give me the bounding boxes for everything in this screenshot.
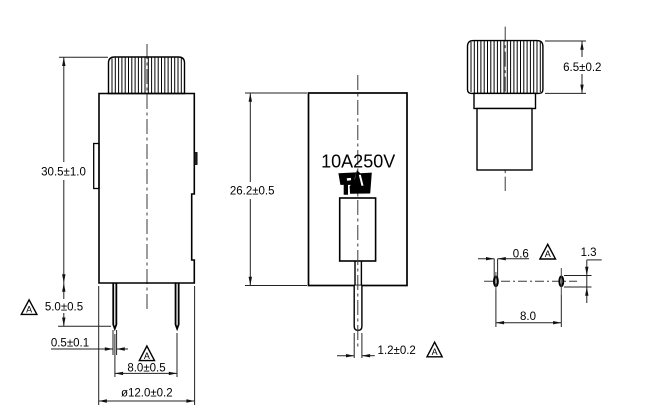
knurled cap top right view	[468, 41, 543, 94]
svg-text:ø12.0±0.2: ø12.0±0.2	[121, 388, 173, 400]
left pin	[113, 283, 116, 329]
triangle marker A near 0.6	[540, 244, 556, 259]
svg-text:8.0: 8.0	[520, 311, 536, 323]
svg-text:0.6: 0.6	[513, 249, 529, 261]
triangle marker A near 8.0	[139, 346, 154, 361]
dimension 0.6	[478, 259, 529, 277]
right pad	[559, 276, 563, 286]
dimension 30.5±1.0	[59, 57, 108, 283]
svg-text:8.0±0.5: 8.0±0.5	[127, 362, 165, 374]
right pad vertical tick	[560, 268, 562, 295]
middle body rectangle	[309, 93, 408, 286]
right pin	[176, 283, 179, 329]
dimension 0.5±0.1	[51, 330, 128, 355]
right small tab	[194, 153, 197, 165]
svg-text:10A250V: 10A250V	[321, 152, 395, 172]
UL recognized logo	[338, 170, 371, 197]
dimension 5.0±0.5	[58, 283, 111, 326]
svg-text:1.3: 1.3	[581, 247, 597, 259]
middle pin with round tip	[354, 286, 362, 331]
centerline top right view	[504, 27, 506, 191]
dimension 8.0±0.5	[115, 333, 177, 377]
triangle marker A near 1.2	[427, 342, 442, 357]
svg-text:A: A	[545, 249, 551, 259]
body outline left view	[99, 94, 194, 284]
dimension 26.2±0.5	[245, 93, 307, 286]
collar top right view	[474, 93, 536, 108]
left mounting tab	[94, 144, 99, 189]
dimension ⌀12.0±0.2	[99, 286, 195, 405]
neck below window	[355, 261, 361, 286]
centerline left view	[146, 44, 148, 310]
centerline middle view	[357, 75, 359, 347]
svg-text:26.2±0.5: 26.2±0.5	[230, 186, 275, 198]
inner window rectangle	[340, 198, 376, 261]
svg-text:A: A	[432, 347, 438, 357]
cylinder body top right view	[477, 109, 532, 171]
dimension 8.0	[496, 290, 561, 327]
dimension 6.5±0.2	[545, 41, 586, 93]
left pad vertical tick	[495, 272, 497, 290]
left pad	[494, 276, 498, 286]
dimension 1.3	[564, 260, 602, 303]
svg-text:A: A	[144, 351, 150, 361]
svg-text:1.2±0.2: 1.2±0.2	[378, 345, 416, 357]
svg-text:30.5±1.0: 30.5±1.0	[41, 167, 86, 179]
svg-text:A: A	[26, 305, 32, 315]
svg-text:0.5±0.1: 0.5±0.1	[51, 338, 89, 350]
svg-text:5.0±0.5: 5.0±0.5	[45, 302, 83, 314]
knurled cap left view	[109, 57, 185, 94]
footprint horizontal centerline	[484, 280, 577, 282]
dimension 1.2±0.2	[337, 333, 375, 358]
svg-text:6.5±0.2: 6.5±0.2	[563, 62, 601, 74]
triangle marker A near 5.0	[21, 300, 37, 315]
